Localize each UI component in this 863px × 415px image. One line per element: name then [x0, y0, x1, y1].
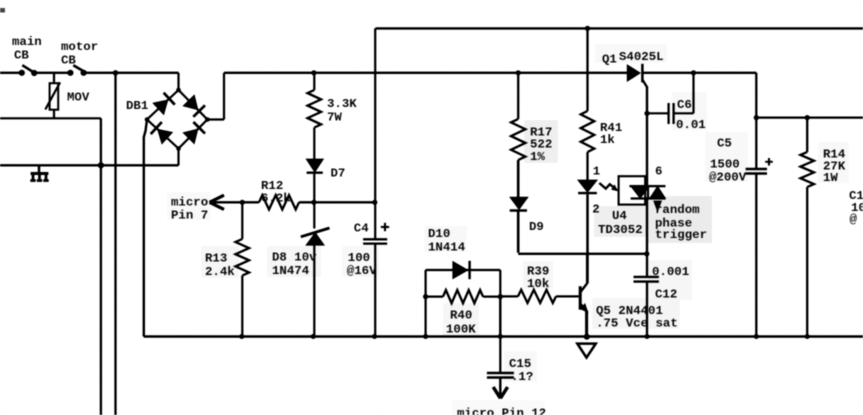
svg-text:trigger: trigger: [655, 228, 707, 242]
svg-text:1500: 1500: [710, 158, 740, 172]
svg-text:C4: C4: [354, 222, 369, 236]
svg-text:2: 2: [592, 203, 599, 217]
svg-text:random: random: [655, 203, 700, 217]
svg-text:100: 100: [348, 251, 370, 265]
svg-text:CB: CB: [61, 54, 76, 68]
svg-text:@ 4: @ 4: [850, 213, 863, 227]
svg-text:@200V: @200V: [709, 171, 747, 185]
svg-text:3.3K: 3.3K: [327, 97, 357, 111]
svg-text:R40: R40: [450, 309, 472, 323]
svg-text:micro Pin 12: micro Pin 12: [457, 407, 546, 415]
svg-text:100K: 100K: [446, 323, 476, 337]
svg-text:1%: 1%: [530, 150, 545, 164]
svg-text:S4025L: S4025L: [619, 50, 664, 64]
svg-text:1N414: 1N414: [428, 240, 466, 254]
svg-text:1W: 1W: [823, 171, 838, 185]
svg-text:Pin 7: Pin 7: [171, 208, 208, 222]
svg-text:10k: 10k: [527, 277, 550, 291]
svg-text:C5: C5: [717, 137, 732, 151]
svg-text:.75 Vce sat: .75 Vce sat: [596, 317, 678, 331]
svg-text:1k: 1k: [600, 133, 615, 147]
svg-text:TD3052: TD3052: [598, 223, 643, 237]
svg-text:main: main: [12, 35, 42, 49]
svg-text:@16V: @16V: [347, 264, 377, 278]
svg-text:MOV: MOV: [67, 91, 90, 105]
svg-text:C12: C12: [655, 288, 677, 302]
svg-text:C15: C15: [509, 357, 531, 371]
svg-text:Q1: Q1: [602, 53, 617, 67]
svg-text:R13: R13: [205, 252, 227, 266]
svg-text:DB1: DB1: [126, 99, 148, 113]
svg-text:1N474: 1N474: [272, 264, 310, 278]
svg-text:D8 10v: D8 10v: [272, 251, 317, 265]
svg-text:U4: U4: [612, 209, 627, 223]
svg-text:2.4k: 2.4k: [205, 265, 235, 279]
svg-text:.1?: .1?: [511, 370, 533, 384]
svg-text:motor: motor: [61, 40, 98, 54]
svg-text:6.2k: 6.2k: [261, 191, 291, 205]
svg-text:1: 1: [593, 165, 600, 179]
svg-text:6: 6: [655, 165, 662, 179]
svg-text:CB: CB: [14, 49, 29, 63]
svg-text:D10: D10: [428, 227, 450, 241]
svg-text:0.01: 0.01: [676, 118, 706, 132]
svg-text:D7: D7: [331, 167, 346, 181]
svg-text:7W: 7W: [327, 111, 342, 125]
svg-text:D9: D9: [529, 220, 544, 234]
svg-text:0.001: 0.001: [652, 265, 689, 279]
svg-text:C6: C6: [677, 98, 692, 112]
